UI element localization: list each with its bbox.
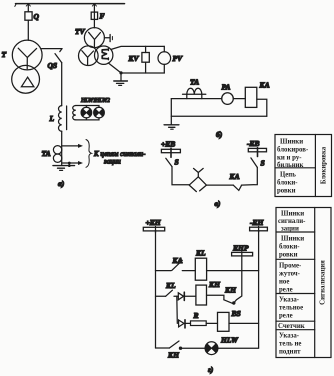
wire to right switch — [241, 167, 257, 185]
wire down/right — [172, 167, 189, 185]
switch S left — [166, 158, 172, 166]
neutral earthing mark — [104, 37, 109, 39]
svg-text:Q: Q — [34, 12, 40, 21]
svg-text:КН: КН — [208, 280, 221, 289]
svg-text:R: R — [193, 311, 199, 320]
svg-text:Шинки: Шинки — [280, 139, 303, 146]
pointer symbol row2 — [178, 293, 183, 300]
lamp HLW1 stubs — [85, 106, 87, 108]
svg-text:зации: зации — [281, 226, 299, 233]
svg-text:+ЕВ: +ЕВ — [161, 140, 175, 149]
svg-text:PV: PV — [173, 54, 184, 63]
current transformer TA (b) — [183, 93, 206, 95]
ground (b) — [164, 124, 179, 126]
svg-text:реле: реле — [279, 287, 293, 294]
svg-text:L: L — [49, 114, 55, 123]
row1: contact KA — [156, 270, 172, 272]
svg-text:HLW2: HLW2 — [94, 98, 110, 104]
transformer T — [12, 40, 42, 70]
open delta winding — [102, 50, 108, 59]
resistor R — [191, 321, 207, 326]
bottom wire — [171, 115, 266, 117]
svg-text:г): г) — [208, 365, 214, 374]
voltage transformer TV — [84, 28, 104, 48]
bottom rail — [121, 72, 164, 74]
ground (a) — [53, 165, 75, 167]
secondary winding of L — [73, 106, 76, 120]
svg-text:тельное: тельное — [279, 305, 303, 312]
svg-text:Цепь: Цепь — [280, 172, 296, 179]
svg-text:Сигнализация: Сигнализация — [319, 260, 326, 305]
breaker Q — [25, 12, 32, 20]
wire KV top stub — [145, 46, 147, 52]
right rail — [258, 231, 260, 348]
svg-text:жуточ-: жуточ- — [279, 271, 301, 278]
row4 wire right — [218, 347, 259, 349]
svg-text:ки и ру-: ки и ру- — [277, 155, 302, 162]
row2: contact KL — [156, 295, 166, 297]
svg-text:ровки: ровки — [279, 252, 298, 259]
ground stub on secondary — [68, 163, 70, 166]
svg-text:КА: КА — [172, 256, 183, 265]
wire T to QS — [42, 48, 62, 50]
relay KH — [196, 285, 207, 305]
wire Q to T — [27, 20, 29, 40]
svg-text:ТА: ТА — [190, 78, 199, 87]
relay KL — [195, 258, 206, 280]
branch down — [176, 296, 179, 323]
svg-text:сигнали-: сигнали- — [278, 218, 306, 225]
svg-text:QS: QS — [48, 61, 58, 70]
row4: contact KH bottom — [156, 347, 170, 349]
svg-text:зации: зации — [103, 158, 121, 166]
wire PA to KA — [233, 98, 245, 100]
svg-text:РА: РА — [222, 83, 231, 92]
svg-text:блоки-: блоки- — [279, 244, 300, 251]
wire F drop — [93, 4, 95, 13]
bus bar — [16, 3, 125, 5]
Y top winding — [89, 32, 101, 47]
voltmeter PV — [163, 46, 165, 51]
svg-text:Счетчик: Счетчик — [278, 323, 305, 330]
svg-text:КА: КА — [259, 81, 270, 90]
svg-text:BS: BS — [231, 309, 241, 318]
svg-text:Блокировка: Блокировка — [320, 146, 327, 184]
svg-text:тель не: тель не — [279, 341, 301, 348]
row1 wire to right rail — [207, 270, 259, 272]
svg-text:T: T — [2, 50, 7, 59]
svg-text:блоки-: блоки- — [277, 180, 298, 187]
fuse F — [91, 12, 97, 19]
wire KV bottom stub — [145, 62, 147, 73]
wire TV to top rail — [111, 46, 164, 49]
wire Q drop — [27, 4, 29, 12]
svg-text:ное: ное — [279, 279, 289, 286]
svg-text:а): а) — [58, 179, 65, 188]
svg-text:ровки: ровки — [277, 188, 296, 195]
counter BS — [218, 312, 230, 331]
lamp HLW2 — [94, 107, 105, 118]
plug connector — [189, 177, 206, 192]
armature Y — [194, 168, 204, 176]
svg-text:KL: KL — [165, 281, 176, 290]
svg-text:КА: КА — [229, 172, 240, 181]
svg-text:Шинки: Шинки — [281, 211, 304, 218]
svg-text:Шинки: Шинки — [281, 236, 304, 243]
svg-text:Проме-: Проме- — [279, 263, 302, 270]
svg-text:S: S — [175, 158, 179, 167]
relay KV — [142, 53, 149, 63]
svg-text:реле: реле — [279, 313, 293, 320]
wire QS down — [61, 63, 63, 106]
svg-text:КН: КН — [224, 285, 237, 294]
wire KH to contact — [207, 295, 224, 300]
wire to KA contact — [206, 184, 233, 186]
reactor L winding — [58, 106, 61, 132]
svg-text:-ЕВ: -ЕВ — [247, 139, 260, 148]
svg-text:-ЕН: -ЕН — [250, 218, 265, 227]
svg-text:бильник: бильник — [277, 162, 304, 169]
svg-text:F: F — [100, 12, 105, 21]
row3: pointer symbol — [179, 320, 184, 327]
wire L to TA — [61, 131, 63, 165]
node — [119, 71, 122, 74]
svg-text:в): в) — [215, 199, 221, 208]
svg-text:S: S — [261, 159, 265, 168]
svg-text:HLW1: HLW1 — [80, 98, 96, 104]
svg-text:б): б) — [216, 130, 223, 139]
svg-text:КН: КН — [167, 351, 180, 360]
contact KH right — [224, 300, 233, 304]
svg-text:Указа-: Указа- — [279, 297, 300, 304]
wire R to BS — [206, 322, 217, 324]
EHP rail — [234, 252, 242, 303]
relay KA — [245, 87, 256, 107]
Y bottom-left winding — [82, 51, 94, 65]
wire KA out — [257, 99, 267, 116]
svg-text:HLW: HLW — [220, 336, 239, 345]
brace — [86, 140, 92, 168]
lamp HLW — [205, 342, 218, 355]
switch S right — [251, 158, 257, 168]
wire TV to bottom rail — [108, 63, 121, 73]
disconnector QS — [60, 49, 62, 52]
contact KA — [233, 185, 241, 190]
TA secondary wire top with arrow — [62, 145, 79, 147]
lamp loop wires — [76, 106, 99, 120]
svg-text:поднят: поднят — [279, 349, 301, 356]
svg-text:TV: TV — [75, 27, 86, 36]
svg-text:KL: KL — [195, 249, 206, 258]
svg-text:KV: KV — [128, 54, 140, 63]
main wire — [171, 98, 221, 100]
current transformer TA — [53, 146, 61, 154]
ground TV — [120, 73, 122, 81]
left drop — [170, 99, 172, 125]
svg-text:TA: TA — [42, 149, 51, 158]
svg-text:ЕНР: ЕНР — [232, 244, 249, 253]
ammeter PA — [222, 93, 234, 105]
svg-text:Указа-: Указа- — [279, 333, 300, 340]
left rail — [155, 230, 157, 348]
lamp HLW1 — [81, 107, 92, 118]
svg-text:+ЕН: +ЕН — [146, 218, 162, 227]
core bar — [66, 106, 68, 130]
svg-text:блокиров-: блокиров- — [277, 147, 309, 154]
TA secondary wire bottom with arrow — [62, 162, 79, 164]
row3 wire to right rail — [229, 322, 259, 324]
